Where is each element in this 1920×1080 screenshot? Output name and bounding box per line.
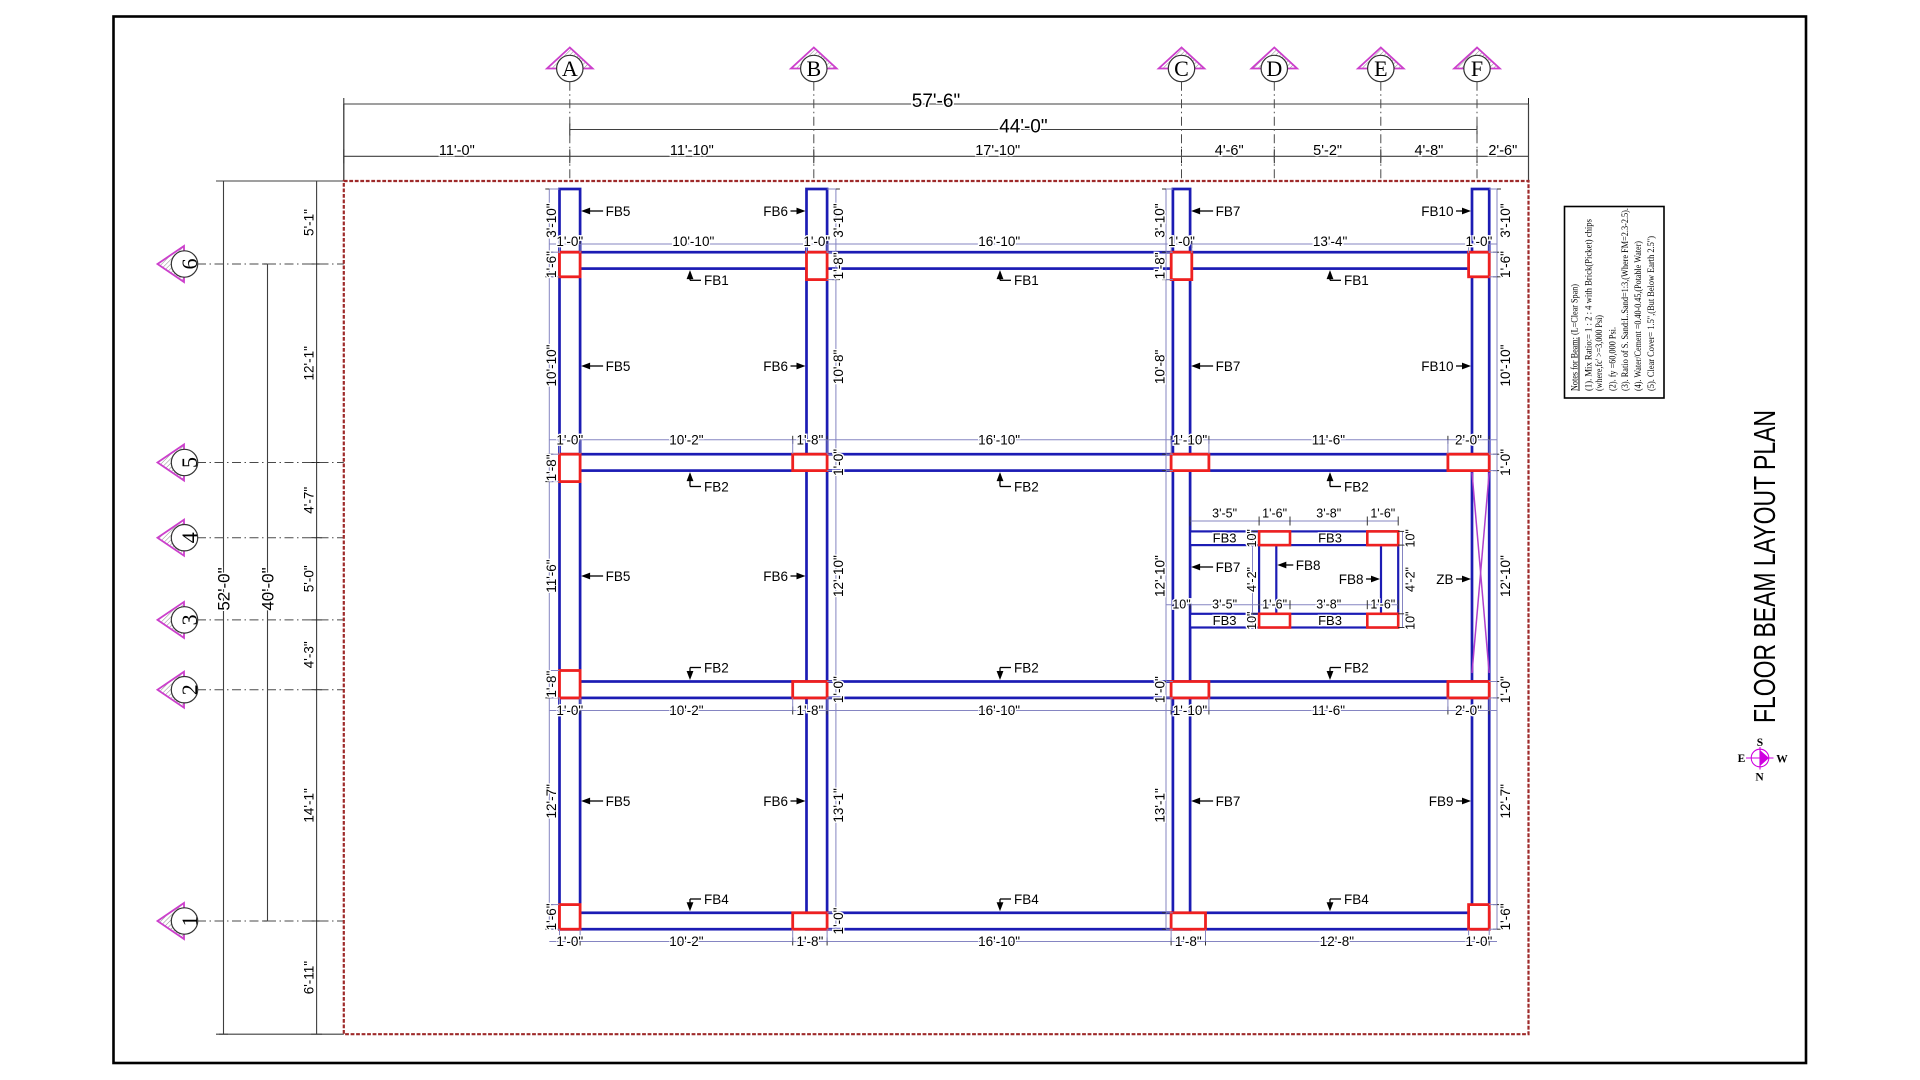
svg-text:10": 10" (1245, 612, 1259, 630)
svg-text:FB8: FB8 (1296, 558, 1321, 573)
grid bubble 5 (158, 445, 344, 481)
beam label FB10 (1421, 359, 1471, 374)
svg-text:10'-2": 10'-2" (669, 703, 704, 718)
svg-text:14'-1": 14'-1" (302, 788, 317, 823)
dimension chain along grid 5 (549, 432, 1497, 454)
svg-text:10": 10" (1245, 529, 1259, 547)
svg-text:4: 4 (177, 532, 202, 543)
svg-text:1'-6": 1'-6" (1498, 903, 1513, 930)
svg-text:FLOOR BEAM LAYOUT PLAN: FLOOR BEAM LAYOUT PLAN (1747, 410, 1782, 723)
svg-text:(3). Ratio of S. Sand:L.Sand=1: (3). Ratio of S. Sand:L.Sand=1:3,(Where … (1620, 208, 1631, 391)
svg-text:FB6: FB6 (763, 359, 788, 374)
beam FB10/FB9/ZB beam line F (1472, 189, 1489, 929)
svg-text:FB7: FB7 (1216, 794, 1241, 809)
grid bubble A (547, 48, 593, 182)
svg-text:57'-6": 57'-6" (912, 91, 960, 112)
left dimension chain 5'-1" / 12'-1" / 4'-7" / 5'-0" / 4'-3" / 14'-1" / 6'-11" (302, 181, 323, 1034)
svg-text:1'-0": 1'-0" (831, 449, 846, 476)
dimension 57'-6" overall top (344, 91, 1529, 181)
grid bubble 3 (158, 602, 344, 638)
svg-text:A: A (562, 56, 578, 81)
svg-text:10": 10" (1403, 529, 1417, 547)
svg-text:1'-8": 1'-8" (796, 934, 823, 949)
svg-text:1'-6": 1'-6" (1262, 598, 1287, 612)
svg-text:12'-10": 12'-10" (1153, 555, 1168, 597)
beam label FB2 (grid 5) (687, 472, 729, 494)
svg-text:1'-6": 1'-6" (544, 903, 559, 930)
svg-text:2'-6": 2'-6" (1488, 143, 1517, 159)
svg-text:17'-10": 17'-10" (975, 143, 1020, 159)
svg-text:5: 5 (177, 457, 202, 468)
beam label FB4 (997, 892, 1040, 912)
svg-text:FB3: FB3 (1318, 613, 1342, 628)
svg-text:3'-8": 3'-8" (1316, 507, 1341, 521)
svg-text:1'-6": 1'-6" (1498, 251, 1513, 278)
column C/1 (1171, 913, 1205, 929)
svg-text:44'-0": 44'-0" (999, 117, 1047, 138)
svg-text:4'-2": 4'-2" (1245, 567, 1259, 592)
svg-text:FB2: FB2 (1344, 660, 1369, 675)
svg-text:FB10: FB10 (1421, 204, 1453, 219)
svg-text:2'-0": 2'-0" (1455, 432, 1482, 447)
svg-text:3'-5": 3'-5" (1212, 598, 1237, 612)
svg-text:(4). Water/Cement =0.40-0.45,(: (4). Water/Cement =0.40-0.45,(Potable Wa… (1633, 241, 1644, 391)
svg-text:5'-2": 5'-2" (1313, 143, 1342, 159)
beam FB5 beam line A (560, 189, 581, 929)
dimension chain along grid 1 (549, 930, 1497, 950)
svg-text:1'-0": 1'-0" (556, 432, 583, 447)
svg-text:1: 1 (177, 916, 202, 927)
svg-text:FB7: FB7 (1216, 359, 1241, 374)
beam label FB8 left (1277, 558, 1320, 573)
column C/5 (1171, 454, 1209, 470)
beam FB8 right (1381, 545, 1398, 614)
svg-text:1'-0": 1'-0" (1168, 234, 1195, 249)
svg-text:12'-7": 12'-7" (544, 784, 559, 819)
dimension 52'-0" overall left (215, 181, 234, 1034)
svg-text:1'-8": 1'-8" (831, 252, 846, 279)
svg-text:FB2: FB2 (1014, 660, 1039, 675)
svg-text:11'-6": 11'-6" (1312, 703, 1346, 718)
svg-text:12'-8": 12'-8" (1320, 934, 1355, 949)
svg-text:12'-7": 12'-7" (1498, 784, 1513, 819)
grid bubble B (791, 48, 837, 182)
grid bubble 6 (158, 246, 344, 282)
column F/2 (1448, 682, 1489, 698)
svg-text:FB5: FB5 (606, 359, 631, 374)
svg-text:W: W (1776, 754, 1788, 766)
beam label FB10 (1421, 204, 1471, 219)
svg-text:3'-8": 3'-8" (1316, 598, 1341, 612)
svg-text:3: 3 (177, 614, 202, 625)
svg-text:40'-0": 40'-0" (259, 567, 278, 610)
svg-text:FB3: FB3 (1318, 531, 1342, 546)
svg-text:FB6: FB6 (763, 794, 788, 809)
beam label FB7 (1191, 204, 1240, 219)
floor plan boundary (red dashed) (344, 181, 1529, 1034)
svg-text:11'-0": 11'-0" (439, 143, 475, 159)
grid bubble 4 (158, 520, 344, 556)
svg-text:3'-10": 3'-10" (1153, 203, 1168, 238)
svg-text:FB4: FB4 (1344, 892, 1369, 907)
beam FB7 beam line C (1173, 189, 1190, 929)
svg-text:52'-0": 52'-0" (215, 567, 234, 610)
beam FB1 grid 6 (560, 252, 1490, 268)
svg-text:FB1: FB1 (1014, 273, 1039, 288)
svg-text:1'-8": 1'-8" (544, 671, 559, 698)
svg-text:F: F (1471, 56, 1483, 81)
svg-text:FB1: FB1 (704, 273, 729, 288)
svg-text:13'-4": 13'-4" (1313, 234, 1348, 249)
beam label FB6 (763, 794, 805, 809)
svg-text:6'-11": 6'-11" (302, 961, 317, 995)
svg-text:1'-6": 1'-6" (1370, 598, 1395, 612)
beam FB8 left (1259, 545, 1276, 614)
svg-text:B: B (806, 56, 821, 81)
beam label FB5 (581, 569, 630, 584)
column B/6 (807, 252, 828, 279)
svg-text:Notes for Beam: (L=Clear Span): Notes for Beam: (L=Clear Span) (1570, 284, 1581, 391)
svg-text:10'-8": 10'-8" (1153, 349, 1168, 384)
cluster column (1259, 614, 1290, 628)
svg-text:10": 10" (1403, 612, 1417, 630)
svg-text:1'-0": 1'-0" (1465, 234, 1492, 249)
ZB wall cross marks (1472, 473, 1489, 674)
svg-text:5'-0": 5'-0" (302, 565, 317, 592)
svg-text:4'-6": 4'-6" (1215, 143, 1244, 159)
dimension 40'-0" left (259, 264, 278, 921)
svg-text:16'-10": 16'-10" (978, 934, 1020, 949)
dimension chain right of beam B (827, 189, 846, 934)
column A/5 (560, 454, 581, 481)
dimension chain left of beam A (544, 189, 559, 930)
svg-text:1'-0": 1'-0" (1465, 934, 1492, 949)
svg-text:1'-0": 1'-0" (831, 907, 846, 934)
column A/1 (560, 905, 581, 930)
cluster column (1367, 531, 1398, 545)
svg-text:FB8: FB8 (1339, 572, 1364, 587)
svg-text:1'-6": 1'-6" (1262, 507, 1287, 521)
svg-text:FB1: FB1 (1344, 273, 1369, 288)
svg-text:3'-5": 3'-5" (1212, 507, 1237, 521)
grid bubble F (1454, 48, 1500, 182)
beam FB4 grid 1 (560, 913, 1490, 929)
svg-text:FB7: FB7 (1216, 204, 1241, 219)
svg-text:1'-8": 1'-8" (1153, 252, 1168, 279)
svg-text:ZB: ZB (1436, 572, 1453, 587)
grid bubble 2 (158, 672, 344, 708)
dimension chain right of beam F (1489, 189, 1513, 930)
grid bubble D (1252, 48, 1298, 182)
cluster dimension chain top 3'-5"/1'-6"/3'-8"/1'-6" (1190, 507, 1398, 526)
svg-text:10'-10": 10'-10" (1498, 344, 1513, 386)
column B/1 (793, 913, 827, 929)
extension lines top/bottom left corners (216, 104, 1529, 1034)
svg-text:13'-1": 13'-1" (1153, 788, 1168, 823)
beam label FB5 (581, 204, 630, 219)
svg-text:1'-6": 1'-6" (544, 251, 559, 278)
svg-text:E: E (1374, 56, 1387, 81)
svg-text:3'-10": 3'-10" (544, 203, 559, 238)
svg-text:FB6: FB6 (763, 569, 788, 584)
column A/6 (560, 252, 581, 277)
grid bubble C (1159, 48, 1205, 182)
beam label FB2 (grid 2) (1327, 660, 1369, 680)
grid bubble 1 (158, 903, 344, 939)
column F/6 (1469, 252, 1490, 277)
svg-text:5'-1": 5'-1" (302, 209, 317, 236)
svg-text:FB5: FB5 (606, 569, 631, 584)
svg-text:(where,fc' >=3,000 Psi): (where,fc' >=3,000 Psi) (1594, 315, 1605, 391)
svg-text:12'-10": 12'-10" (1498, 555, 1513, 597)
svg-text:1'-10": 1'-10" (1173, 432, 1208, 447)
svg-text:FB4: FB4 (704, 892, 729, 907)
beam label FB6 (763, 569, 805, 584)
svg-text:4'-2": 4'-2" (1403, 567, 1417, 592)
svg-text:D: D (1266, 56, 1282, 81)
beam label FB6 (763, 204, 805, 219)
column A/2 (560, 671, 581, 698)
beam label FB7 (1191, 359, 1240, 374)
svg-text:FB10: FB10 (1421, 359, 1453, 374)
dimension chain along grid 6 (549, 234, 1497, 253)
svg-text:2'-0": 2'-0" (1455, 703, 1482, 718)
beam label FB9 (1429, 794, 1471, 809)
svg-text:3'-10": 3'-10" (831, 203, 846, 238)
svg-text:10'-8": 10'-8" (831, 349, 846, 384)
cluster vertical dims 10"/4'-2"/10" left (1245, 529, 1259, 630)
svg-text:1'-10": 1'-10" (1173, 703, 1208, 718)
svg-text:C: C (1174, 56, 1189, 81)
column B/2 (793, 682, 827, 698)
compass rose (1738, 737, 1789, 784)
beam label FB5 (581, 794, 630, 809)
beam label FB8 right (1339, 572, 1380, 587)
svg-text:1'-0": 1'-0" (556, 934, 583, 949)
grid bubble E (1358, 48, 1404, 182)
beam FB2 grid 5 (560, 454, 1490, 470)
svg-text:1'-8": 1'-8" (796, 703, 823, 718)
beam label FB1 (1327, 270, 1369, 288)
svg-text:FB3: FB3 (1213, 613, 1237, 628)
top dimension chain 11'-0" / 11'-10" / 17'-10" / 4'-6" / 5'-2" / 4'-8" / 2'-6" (344, 143, 1529, 163)
svg-text:13'-1": 13'-1" (831, 788, 846, 823)
beam label FB7 (cluster row) (1191, 560, 1240, 575)
svg-text:6: 6 (177, 259, 202, 270)
svg-text:(2). fy =60,000 Psi.: (2). fy =60,000 Psi. (1608, 327, 1619, 391)
beam FB3 top (1190, 531, 1398, 545)
svg-text:10": 10" (1172, 598, 1190, 612)
svg-text:1'-0": 1'-0" (831, 676, 846, 703)
svg-text:1'-6": 1'-6" (1370, 507, 1395, 521)
svg-text:10'-2": 10'-2" (669, 432, 704, 447)
dimension 44'-0" top (570, 117, 1477, 138)
svg-text:4'-7": 4'-7" (302, 487, 317, 514)
beam label FB1 (997, 270, 1039, 288)
cluster column (1259, 531, 1290, 545)
beam label FB4 (687, 892, 730, 912)
svg-text:N: N (1755, 772, 1764, 784)
svg-text:FB2: FB2 (704, 660, 729, 675)
beam label ZB (1436, 572, 1471, 587)
svg-text:16'-10": 16'-10" (978, 432, 1020, 447)
svg-text:1'-0": 1'-0" (1153, 676, 1168, 703)
cluster vertical dims 10"/4'-2"/10" right (1398, 529, 1417, 630)
svg-text:FB6: FB6 (763, 204, 788, 219)
svg-text:FB5: FB5 (606, 204, 631, 219)
svg-text:1'-0": 1'-0" (803, 234, 830, 249)
svg-text:3'-10": 3'-10" (1498, 203, 1513, 238)
svg-text:FB4: FB4 (1014, 892, 1039, 907)
svg-text:FB2: FB2 (1014, 479, 1039, 494)
svg-text:11'-6": 11'-6" (544, 559, 559, 593)
svg-text:(5). Clear Cover= 1.5",(But Be: (5). Clear Cover= 1.5",(But Below Earth … (1646, 236, 1657, 391)
svg-text:16'-10": 16'-10" (978, 703, 1020, 718)
dimension chain along grid 2 (549, 698, 1497, 719)
svg-text:2: 2 (177, 684, 202, 695)
cluster dimension chain bottom 10"/3'-5"/1'-6"/3'-8"/1'-6" (1166, 598, 1398, 612)
svg-text:(1). Mix Ratio:= 1 : 2 : 4 wit: (1). Mix Ratio:= 1 : 2 : 4 with Brick(Pi… (1584, 219, 1595, 391)
dimension chain left of beam C (1153, 189, 1173, 929)
svg-text:1'-0": 1'-0" (1498, 449, 1513, 476)
beam label FB7 (1191, 794, 1240, 809)
notes block (1565, 207, 1665, 399)
svg-text:FB2: FB2 (704, 479, 729, 494)
svg-text:FB5: FB5 (606, 794, 631, 809)
svg-text:11'-10": 11'-10" (670, 143, 714, 159)
svg-text:11'-6": 11'-6" (1312, 432, 1346, 447)
svg-text:10'-10": 10'-10" (672, 234, 714, 249)
column B/5 (793, 454, 827, 470)
beam label FB2 (grid 2) (687, 660, 729, 680)
beam label FB4 (1327, 892, 1370, 912)
column C/6 (1171, 252, 1192, 279)
column F/1 (1469, 905, 1490, 930)
svg-text:1'-0": 1'-0" (556, 234, 583, 249)
svg-text:10'-10": 10'-10" (544, 344, 559, 386)
svg-text:12'-10": 12'-10" (831, 555, 846, 597)
beam FB6 beam line B (807, 189, 828, 929)
beam label FB2 (grid 5) (1327, 472, 1369, 494)
beam FB2 grid 2 (560, 682, 1490, 698)
svg-text:1'-8": 1'-8" (796, 432, 823, 447)
svg-text:12'-1": 12'-1" (302, 346, 317, 381)
beam label FB1 (687, 270, 729, 288)
column C/2 (1171, 682, 1209, 698)
svg-text:E: E (1738, 753, 1746, 765)
beam label FB2 (grid 5) (997, 472, 1039, 494)
svg-text:FB7: FB7 (1216, 560, 1241, 575)
svg-text:S: S (1757, 737, 1763, 749)
svg-text:10'-2": 10'-2" (669, 934, 704, 949)
column F/5 (1448, 454, 1489, 470)
svg-text:FB9: FB9 (1429, 794, 1454, 809)
beam FB3 bottom (1190, 614, 1398, 628)
svg-text:1'-8": 1'-8" (544, 454, 559, 481)
svg-text:16'-10": 16'-10" (978, 234, 1020, 249)
svg-text:FB2: FB2 (1344, 479, 1369, 494)
svg-text:1'-0": 1'-0" (1498, 676, 1513, 703)
beam label FB2 (grid 2) (997, 660, 1039, 680)
beam label FB5 (581, 359, 630, 374)
svg-text:1'-8": 1'-8" (1175, 934, 1202, 949)
svg-text:4'-8": 4'-8" (1414, 143, 1443, 159)
svg-text:4'-3": 4'-3" (302, 641, 317, 668)
svg-text:FB3: FB3 (1213, 531, 1237, 546)
beam label FB6 (763, 359, 805, 374)
cluster column (1367, 614, 1398, 628)
svg-text:1'-0": 1'-0" (556, 703, 583, 718)
